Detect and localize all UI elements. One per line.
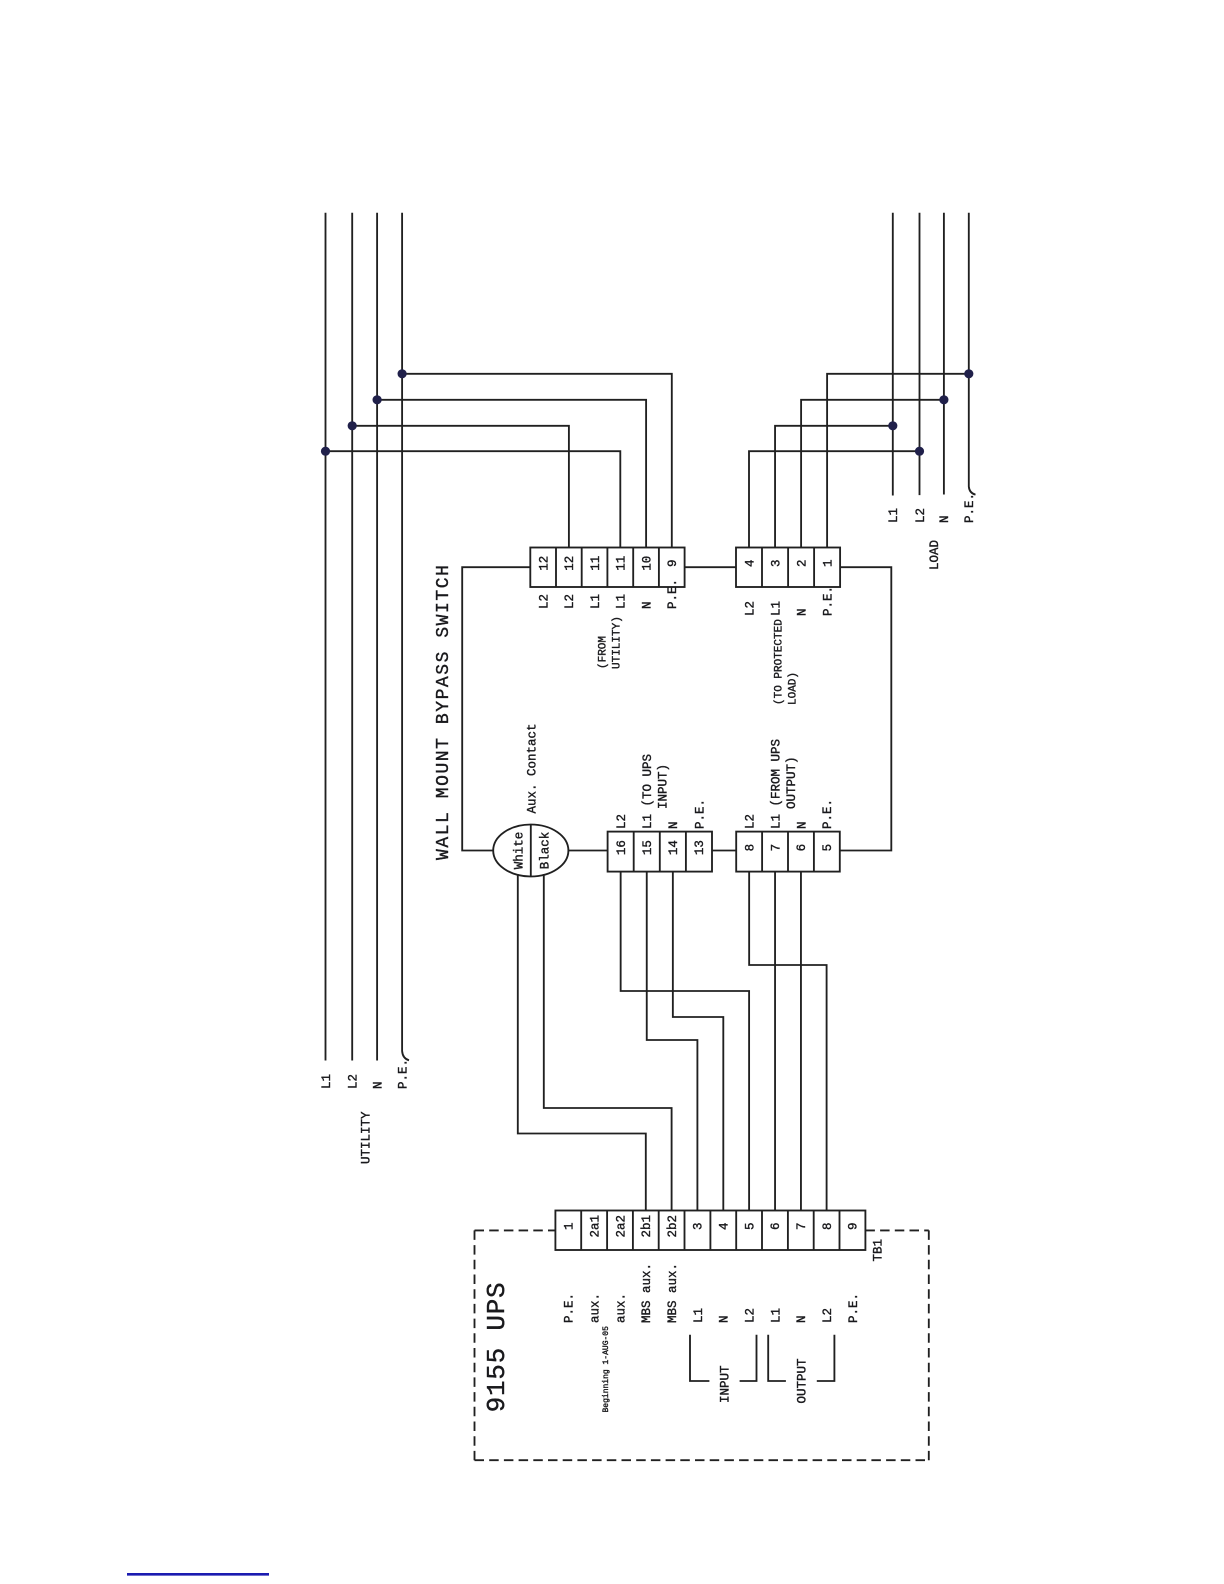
svg-text:L1: L1 [769, 601, 783, 616]
svg-text:P.E.: P.E. [847, 1293, 861, 1323]
wire utility line N [376, 213, 378, 1061]
aux contact ellipse [493, 825, 568, 877]
svg-text:2a2: 2a2 [614, 1215, 628, 1238]
svg-text:aux.: aux. [588, 1293, 602, 1323]
junction dot utility L1 [321, 447, 330, 456]
svg-text:P.E.: P.E. [666, 579, 680, 609]
svg-text:16: 16 [615, 840, 629, 855]
wire load line N [943, 213, 945, 495]
wire terminal 4 to load L2 [749, 451, 920, 547]
junction dot utility P.E. [398, 369, 407, 378]
wire terminal 15 to TB1 3 [647, 872, 698, 1211]
wire load line P.E. [969, 213, 976, 495]
wire utility line L1 [325, 213, 327, 1061]
svg-text:Black: Black [539, 832, 553, 870]
svg-text:5: 5 [821, 844, 835, 852]
wire terminal 13 block to terminal 8 block [712, 850, 736, 852]
svg-text:5: 5 [743, 1222, 757, 1230]
svg-text:UTILITY: UTILITY [359, 1111, 373, 1164]
svg-text:L2: L2 [914, 508, 928, 523]
svg-text:12: 12 [538, 556, 552, 571]
svg-text:INPUT: INPUT [718, 1365, 732, 1403]
terminal block TB upper-left cells 12 12 11 11 10 9 [530, 548, 684, 588]
terminal block TB1 [555, 1211, 865, 1251]
svg-text:11: 11 [615, 556, 629, 571]
svg-text:INPUT): INPUT) [656, 764, 670, 809]
junction dot load L1 [888, 421, 897, 430]
svg-text:OUTPUT: OUTPUT [796, 1358, 810, 1404]
svg-text:L2: L2 [743, 1308, 757, 1323]
svg-text:L2: L2 [615, 814, 629, 829]
svg-text:N: N [718, 1315, 732, 1323]
svg-text:4: 4 [718, 1222, 732, 1230]
svg-text:LOAD): LOAD) [788, 672, 800, 705]
junction dot utility L2 [348, 421, 357, 430]
svg-text:L1: L1 [589, 594, 603, 609]
svg-text:P.E.: P.E. [693, 799, 707, 829]
svg-text:8: 8 [821, 1222, 835, 1230]
svg-text:3: 3 [692, 1222, 706, 1230]
svg-text:L1 (TO UPS: L1 (TO UPS [641, 754, 655, 829]
wire terminal 16 to TB1 5 [621, 872, 749, 1211]
wire aux contact to terminal 16 [568, 850, 607, 852]
svg-text:9: 9 [847, 1222, 861, 1230]
svg-text:1: 1 [563, 1222, 577, 1230]
svg-text:P.E.: P.E. [963, 493, 977, 523]
svg-text:(TO PROTECTED: (TO PROTECTED [773, 619, 785, 705]
svg-text:N: N [795, 1315, 809, 1323]
wire terminal 6 to TB1 7 [800, 872, 802, 1211]
svg-text:6: 6 [769, 1222, 783, 1230]
svg-text:N: N [938, 515, 952, 523]
svg-text:11: 11 [589, 556, 603, 571]
svg-text:L1: L1 [692, 1308, 706, 1323]
9155 UPS dashed enclosure [475, 1230, 929, 1460]
svg-text:8: 8 [743, 844, 757, 852]
footer blue rule [127, 1573, 269, 1576]
svg-text:WALL MOUNT BYPASS SWITCH: WALL MOUNT BYPASS SWITCH [434, 564, 454, 860]
wire right frame from terminal 1 to terminal 5 [840, 567, 892, 850]
wire terminal 7 to TB1 6 [774, 872, 776, 1211]
wire terminal 8 to TB1 8 [749, 872, 826, 1211]
svg-text:L1 (FROM UPS: L1 (FROM UPS [769, 739, 783, 829]
svg-text:MBS aux.: MBS aux. [666, 1263, 680, 1323]
svg-text:6: 6 [795, 844, 809, 852]
wire terminal 3 to load L1 [775, 426, 893, 548]
wire utility L2 to terminal 12 [352, 426, 569, 548]
svg-text:L2: L2 [563, 594, 577, 609]
svg-text:12: 12 [563, 556, 577, 571]
svg-text:L2: L2 [347, 1074, 361, 1089]
wire utility L1 to terminal 11 [326, 451, 621, 547]
svg-text:2b2: 2b2 [666, 1215, 680, 1238]
svg-text:N: N [640, 601, 654, 609]
svg-text:aux.: aux. [614, 1293, 628, 1323]
svg-text:(FROM: (FROM [597, 636, 609, 669]
svg-text:7: 7 [795, 1222, 809, 1230]
svg-text:P.E.: P.E. [821, 799, 835, 829]
wire terminal 2 to load N [801, 400, 944, 548]
junction dot utility N [373, 395, 382, 404]
wire utility line L2 [351, 213, 353, 1061]
svg-text:Beginning 1-AUG-05: Beginning 1-AUG-05 [602, 1326, 611, 1413]
svg-text:10: 10 [640, 556, 654, 571]
wire terminal 14 to TB1 4 [673, 872, 723, 1211]
svg-text:P.E.: P.E. [821, 586, 835, 616]
svg-text:14: 14 [667, 840, 681, 855]
svg-text:L2: L2 [743, 601, 757, 616]
svg-text:P.E.: P.E. [563, 1293, 577, 1323]
input group bracket [690, 1335, 709, 1381]
svg-text:2b1: 2b1 [640, 1215, 654, 1238]
terminal block upper-right cells 4 3 2 1 [736, 548, 840, 588]
junction dot load P.E. [964, 369, 973, 378]
svg-text:L2: L2 [821, 1308, 835, 1323]
svg-text:13: 13 [693, 840, 707, 855]
wire left frame from block 12 to aux contact [462, 567, 530, 850]
terminal block middle-right cells 8 7 6 5 [736, 832, 840, 872]
svg-text:L1: L1 [887, 508, 901, 523]
svg-text:15: 15 [641, 840, 655, 855]
svg-text:N: N [667, 821, 681, 829]
wire black lead to TB1 2b2 [544, 874, 672, 1211]
svg-text:L2: L2 [743, 814, 757, 829]
svg-text:P.E.: P.E. [396, 1059, 410, 1089]
svg-text:MBS aux.: MBS aux. [640, 1263, 654, 1323]
wire white lead to TB1 2b1 [518, 874, 646, 1211]
wire load line L2 [919, 213, 921, 495]
wire utility N to terminal 10 [377, 400, 646, 548]
svg-text:Aux. Contact: Aux. Contact [526, 723, 540, 813]
svg-text:1: 1 [821, 559, 835, 567]
wire load line L1 [892, 213, 894, 496]
svg-text:N: N [795, 821, 809, 829]
svg-text:N: N [371, 1081, 385, 1089]
svg-text:L1: L1 [769, 1308, 783, 1323]
wire utility line P.E. [402, 213, 409, 1061]
wire utility P.E. to terminal 9 [402, 374, 672, 548]
junction dot load N [939, 395, 948, 404]
svg-text:White: White [512, 832, 526, 870]
output group bracket [768, 1335, 786, 1381]
svg-text:3: 3 [769, 559, 783, 567]
svg-text:9: 9 [666, 559, 680, 567]
svg-text:LOAD: LOAD [928, 540, 942, 570]
svg-text:9155 UPS: 9155 UPS [482, 1282, 512, 1413]
svg-text:4: 4 [743, 559, 757, 567]
aux contact divider [530, 825, 532, 877]
svg-text:L1: L1 [320, 1074, 334, 1089]
svg-text:TB1: TB1 [871, 1239, 885, 1262]
svg-text:7: 7 [769, 844, 783, 852]
svg-text:2a1: 2a1 [588, 1215, 602, 1238]
svg-text:UTILITY): UTILITY) [611, 616, 623, 669]
junction dot load L2 [915, 447, 924, 456]
svg-text:L2: L2 [538, 594, 552, 609]
terminal block middle-left cells 16 15 14 13 [608, 832, 712, 872]
svg-text:OUTPUT): OUTPUT) [785, 756, 799, 809]
svg-text:N: N [795, 608, 809, 616]
svg-text:L1: L1 [615, 594, 629, 609]
svg-text:2: 2 [795, 559, 809, 567]
wire terminal 1 to load P.E. [827, 374, 969, 548]
wire terminal 9 to terminal 4 block [685, 566, 736, 568]
